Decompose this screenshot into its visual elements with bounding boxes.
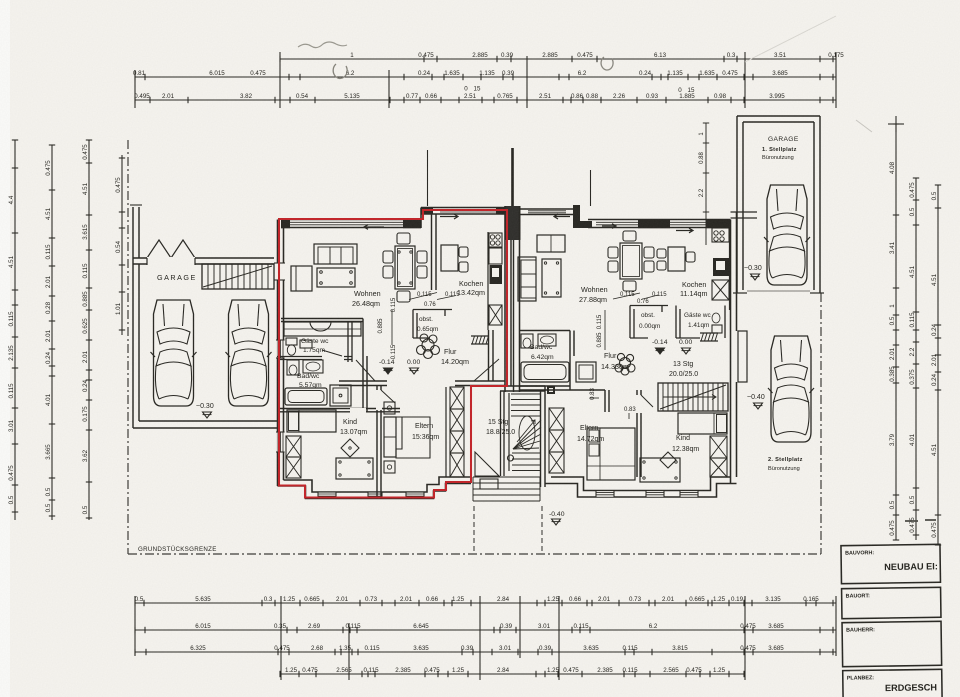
dimension row bottom 4 bbox=[280, 667, 745, 677]
vertical dimension line left C bbox=[82, 140, 92, 520]
axis line above party wall bbox=[511, 148, 514, 206]
faint scan crease top right bbox=[745, 16, 836, 62]
level triangle left garage bbox=[203, 412, 212, 418]
axis line above left kitchen wall bbox=[427, 150, 429, 206]
cut-off marks above title block bbox=[905, 520, 936, 521]
vertical dimension line left A bbox=[8, 140, 18, 520]
vertical dimension line right B bbox=[909, 178, 919, 540]
rug Kind right unit bbox=[660, 452, 676, 468]
kitchen counter left unit bbox=[488, 232, 502, 330]
level marks -0.14 and 0.00 left unit bbox=[379, 359, 420, 366]
guest wc fixtures right bbox=[712, 313, 722, 333]
stairwell walls bbox=[500, 386, 545, 487]
bed in Eltern left unit bbox=[384, 417, 430, 458]
wardrobe strip stairwell side right unit bbox=[549, 408, 564, 473]
wardrobe strip Eltern left unit bbox=[446, 387, 464, 477]
filled level triangle left bbox=[384, 368, 393, 374]
hall wall right unit bbox=[604, 390, 606, 412]
dining table with chairs left unit bbox=[383, 233, 427, 302]
guest wc right unit walls bbox=[676, 306, 725, 339]
car on 2. Stellplatz bbox=[768, 336, 814, 442]
party wall between units bbox=[505, 206, 521, 392]
hall walls left unit lower area bbox=[339, 359, 505, 386]
straight stair right unit bbox=[658, 383, 728, 411]
left garage door opening (two leafs) bbox=[147, 240, 195, 258]
newel post square bbox=[547, 386, 555, 394]
bed in Kind left unit bbox=[287, 410, 336, 432]
left unit outer walls bbox=[274, 207, 505, 499]
dimension row bottom 3 bbox=[135, 645, 836, 655]
entry door arrows at party wall bbox=[440, 214, 458, 219]
armchair left unit bbox=[291, 266, 312, 291]
wardrobe cabinet left unit bbox=[284, 322, 361, 336]
car in right garage (1. Stellplatz) bbox=[764, 185, 810, 285]
bed Eltern right unit bbox=[587, 428, 635, 480]
survey cross at top of right dimension line bbox=[888, 123, 904, 125]
left garage outline bbox=[133, 258, 277, 428]
nightstands Eltern left unit bbox=[384, 402, 395, 473]
larder obst right unit bbox=[630, 306, 668, 339]
long connector ticks of bottom dimension rows bbox=[135, 596, 836, 680]
wardrobe in Kind left unit bbox=[286, 436, 301, 478]
small dims 0.115 0.76 left unit bbox=[378, 292, 460, 359]
right garage door line bbox=[747, 290, 810, 292]
filled level triangle right bbox=[656, 348, 665, 354]
wall niche hatch right unit bbox=[700, 333, 718, 341]
wall niche right of building bbox=[738, 331, 747, 382]
coffee table right unit bbox=[542, 259, 561, 297]
title block bbox=[841, 544, 942, 697]
axis line above right unit step bbox=[590, 170, 592, 206]
small dims right unit bbox=[597, 292, 667, 350]
entrance steps below stairwell bbox=[473, 477, 540, 501]
small dimension line near right garage bbox=[699, 123, 709, 245]
guest wc partition walls bbox=[277, 322, 352, 363]
under-stair triangle bbox=[475, 452, 499, 476]
guest wc fixtures bbox=[286, 338, 312, 355]
larder obst left unit bbox=[413, 310, 452, 339]
smudge circle marks bbox=[333, 64, 347, 78]
kitchen table with chairs left unit bbox=[441, 245, 468, 272]
car in left garage stall 1 bbox=[151, 300, 197, 406]
neighbour wall stub top left bbox=[132, 207, 134, 258]
bed Kind right unit bbox=[678, 413, 727, 434]
wardrobe Kind right unit bbox=[710, 436, 727, 477]
level triangle right parking bbox=[754, 403, 763, 409]
sideboard right unit top bbox=[537, 235, 565, 252]
wall between eltern and kind right unit bbox=[636, 390, 653, 477]
dining table with chairs right unit bbox=[608, 231, 654, 291]
plant symbol left unit bbox=[417, 334, 440, 359]
open level triangle stairwell bbox=[552, 519, 561, 525]
vertical dimension line left B bbox=[45, 145, 55, 520]
wall above wardrobe left unit bbox=[281, 318, 363, 320]
left garage exterior stair bbox=[202, 264, 274, 289]
wall between kind and eltern left unit bbox=[376, 386, 395, 499]
dimension row bottom 1 bbox=[135, 596, 836, 606]
kitchen partition wall left unit bbox=[431, 214, 433, 290]
desk Kind right unit bbox=[640, 458, 680, 482]
vertical dimension line right C bbox=[931, 185, 941, 545]
kitchen table right unit bbox=[657, 247, 695, 271]
wall hatch right of flur left unit bbox=[471, 336, 489, 344]
vertical dimension line right A bbox=[889, 124, 899, 540]
dimension row top B bbox=[133, 70, 836, 80]
coffee table left unit bbox=[317, 268, 355, 287]
red outline around left apartment bbox=[279, 210, 507, 498]
plant symbol right unit bbox=[615, 353, 635, 375]
open level triangle left bbox=[410, 368, 419, 374]
dimension row bottom 2 bbox=[135, 623, 836, 633]
desk in Kind left unit bbox=[336, 458, 373, 479]
dimension row top A bbox=[280, 52, 844, 62]
open level triangle right bbox=[682, 348, 691, 354]
sofa left unit bbox=[314, 244, 357, 264]
bath fixtures right unit bbox=[521, 334, 596, 382]
bath partition walls left unit bbox=[277, 319, 400, 414]
right garage outline bbox=[733, 116, 824, 293]
bath right unit walls bbox=[520, 331, 606, 391]
right unit outer walls bbox=[520, 205, 758, 497]
property boundary dash-dot line left bbox=[127, 140, 129, 554]
winding stair bbox=[508, 394, 542, 471]
bathroom fixtures left unit bbox=[285, 360, 351, 406]
window arrows top walls bbox=[364, 225, 384, 230]
walkway dashed edges bbox=[473, 506, 475, 553]
kitchen counter right unit bbox=[711, 223, 730, 310]
property boundary dash-dot line bottom bbox=[128, 553, 821, 555]
rug in Kind left unit bbox=[341, 439, 359, 457]
handwritten smudge above top dimensions bbox=[298, 42, 347, 48]
level triangle right garage bbox=[751, 274, 760, 280]
car in left garage stall 2 bbox=[226, 300, 272, 406]
sofa right unit (vertical) bbox=[518, 257, 536, 301]
wall below kitchen left unit bbox=[489, 330, 494, 381]
dimension row top C bbox=[134, 93, 836, 103]
long connector ticks of top dimension rows bbox=[135, 52, 836, 108]
vertical dimension line left D bbox=[115, 155, 125, 335]
property boundary dash-dot line right bbox=[820, 293, 822, 554]
